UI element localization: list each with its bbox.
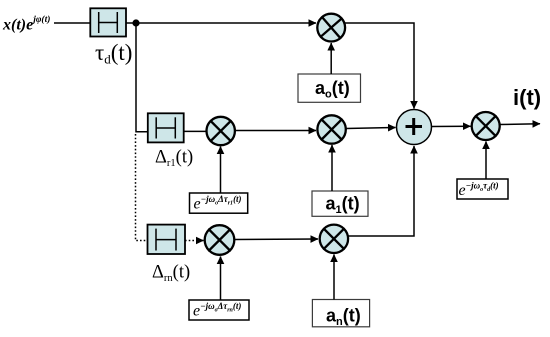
wire e_rn box up to M5 with arrow	[220, 257, 222, 301]
block H1 (delay tau_d)	[90, 8, 126, 36]
box a_1(t)	[312, 191, 368, 216]
wire M5 to M6 with arrow	[234, 238, 318, 241]
junction node	[132, 19, 139, 26]
box e^-jwo tau_d	[457, 179, 508, 199]
block H3 (Delta_rn)	[148, 225, 186, 254]
svg-text:a1(t): a1(t)	[326, 194, 360, 217]
wire a_1 up to M3 with arrow	[331, 145, 333, 191]
dotted wire H3 to M5 with arrow	[185, 240, 197, 242]
box e^-jwo dtau rn	[189, 300, 249, 320]
wire M3 to sum with arrow	[346, 128, 396, 129]
wire junction down to row 2	[136, 23, 148, 132]
multiplier M6	[320, 225, 348, 253]
box a_n(t)	[312, 300, 369, 327]
multiplier M5	[205, 225, 235, 255]
svg-text:an(t): an(t)	[326, 306, 361, 329]
wire M2 to M3 with arrow	[235, 130, 316, 132]
wire a_n up to M6 with arrow	[333, 255, 335, 300]
wire sum to M4 with arrow	[431, 125, 470, 127]
svg-text:i(t): i(t)	[513, 85, 541, 110]
block H2 (Delta_r1)	[148, 113, 184, 142]
multiplier M1	[317, 14, 345, 42]
wire e_r1 box up to M2 with arrow	[220, 147, 222, 194]
multiplier M3	[317, 115, 345, 143]
box e^-jwo dtau r1	[190, 193, 248, 213]
wire a_o up to M1 with arrow	[330, 43, 332, 74]
wire input to block H1	[54, 22, 90, 24]
dotted wire down to row 3	[136, 134, 148, 241]
box a_o(t)	[298, 74, 361, 102]
multiplier M4	[472, 112, 500, 140]
wire M1 right, corner, down to sum with arrow	[345, 23, 414, 109]
wire M6 right, corner, up to sum with arrow	[348, 146, 414, 236]
svg-text:τd(t): τd(t)	[95, 40, 132, 67]
wire e_d box up to M4 with arrow	[485, 142, 487, 180]
wire H1 to M1 with arrow	[126, 22, 316, 24]
wire H2 to M2	[184, 130, 207, 132]
svg-text:ao(t): ao(t)	[315, 78, 350, 101]
output wire with arrow	[500, 123, 540, 126]
summing node	[397, 110, 432, 145]
multiplier M2	[207, 117, 235, 145]
